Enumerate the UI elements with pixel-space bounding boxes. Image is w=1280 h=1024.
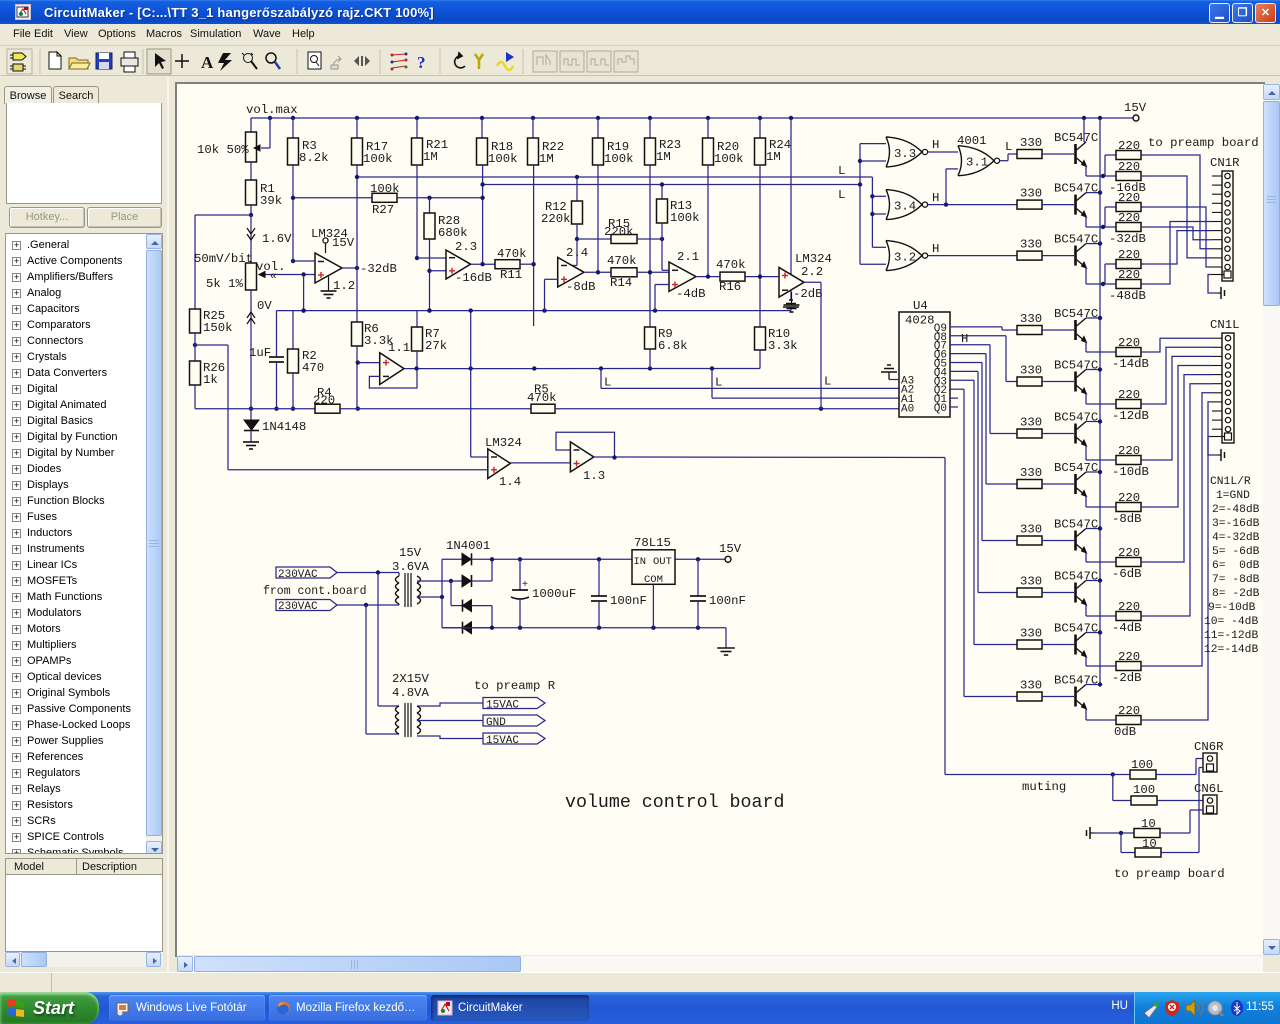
resistor 220 -16dB upper (1116, 139, 1143, 160)
gate U3.1 NOR 4001 (957, 134, 1000, 176)
wire -16dB lower to CN1R (1143, 176, 1212, 258)
resistor R4 220 (313, 386, 340, 413)
ground at A3 (881, 365, 897, 380)
resistor 220 0dB (1116, 704, 1143, 725)
wire R24 line down (759, 165, 761, 327)
terminal 15V top right (1124, 101, 1147, 121)
resistor 330 base Q5 (1017, 364, 1074, 387)
label R1 39k (260, 182, 282, 208)
wire CN1R pin12 to ground (1208, 275, 1218, 294)
transistor Q1 BC547C (1076, 142, 1087, 167)
resistor R24 (755, 118, 792, 165)
op-amp 1.1 feedback loop (369, 369, 417, 389)
wire -16dB upper to CN1R (1141, 155, 1212, 249)
transistor Q4 BC547C (1076, 318, 1087, 343)
op-amp U1.2 LM324 (311, 227, 355, 293)
wire PSU top rail (490, 557, 632, 561)
wire Q10 collector to bus (1086, 630, 1102, 634)
wire R22 line down (533, 165, 535, 326)
resistor 220 -12dB (1116, 388, 1143, 409)
label legend CN1L/R (1204, 476, 1260, 656)
wire wiper to op-amp 1.2 (268, 271, 315, 283)
resistor 330 base Q9 (1017, 575, 1074, 598)
op-amp 1.2 ground pin (321, 277, 337, 299)
status bar (0, 972, 1280, 992)
label L at A2 (604, 376, 611, 390)
label H at 3.2 (932, 242, 939, 256)
op-amp U1.4 LM324 (485, 436, 522, 489)
wire divider to 1.4 plus (228, 469, 488, 471)
transistor Q9 BC547C (1076, 581, 1087, 606)
label -4dB (1112, 621, 1142, 635)
op-amp 2.2 ground pin (784, 292, 800, 312)
resistor R3 (288, 118, 329, 165)
diode D5 1N4148 (244, 409, 259, 442)
potentiometer P2 5k vol (246, 263, 269, 290)
menu bar (0, 24, 1280, 46)
potentiometer P1 10k (246, 118, 271, 162)
wire to T2 primary bottom (366, 605, 399, 734)
transistor Q3 BC547C (1076, 244, 1087, 269)
wire 720 row to CN1L (1143, 402, 1212, 720)
wire 1.3 output to muting (594, 455, 1115, 776)
connector CN6R (1203, 753, 1217, 772)
wire R26 bottom to main bus (194, 385, 196, 409)
wire to 3.2 inputs (860, 247, 886, 264)
wire 100 upper to CN6R (1196, 759, 1203, 775)
component tree (5, 233, 163, 854)
wire Q6 emitter to 220 (1086, 446, 1116, 461)
node R25 R26 to op1.4 (193, 343, 228, 470)
ground at CN1R (1218, 287, 1225, 299)
label BC547C Q5 (1054, 359, 1098, 373)
label vol. (256, 260, 286, 274)
label 100k R27 (370, 182, 400, 217)
flag 15VAC upper (483, 698, 545, 712)
hotkey button (9, 207, 85, 228)
wire L lines to gate 3.3 inputs (858, 144, 886, 265)
wire 404 row to CN1L (1143, 347, 1212, 404)
capacitor C4 100nF (690, 559, 746, 627)
label -32dB (1109, 232, 1146, 246)
resistor R19 (593, 118, 634, 166)
wire 10 upper to CN6L (1190, 810, 1203, 833)
resistor 220 -48dB upper (1116, 248, 1143, 269)
testpoint arrow 1.6V (247, 215, 255, 263)
wire Q11 collector to bus (1086, 682, 1102, 686)
wire R13 bottom to 2.1 inverting (662, 223, 669, 270)
resistor 330 base Q1 (1017, 136, 1074, 159)
label -4dB (676, 287, 706, 301)
label BC547C Q9 (1054, 570, 1098, 584)
resistor R23 (645, 118, 682, 165)
wire R19 line down (597, 165, 599, 272)
resistor 10 upper (1094, 817, 1190, 838)
wire 3.2 output to 330 row3 (928, 255, 1018, 257)
resistor 220 -16dB lower (1116, 160, 1143, 181)
resistor 100 lower (1113, 775, 1203, 806)
wire -48dB upper to CN1R (1141, 231, 1212, 264)
transistor Q6 BC547C (1076, 422, 1087, 447)
wire Q5 collector to bus (1086, 367, 1102, 371)
connector CN1L (1212, 333, 1234, 443)
pin stub Q1 (950, 397, 958, 399)
wire Q8 to 330 row5 (950, 336, 1017, 382)
label H at 3.4 (932, 191, 939, 205)
wire R3 line to 1.2 inverting input (291, 259, 315, 263)
resistor R5 470k (527, 383, 557, 414)
resistor 100 upper (1113, 758, 1196, 779)
junction dots on 1.1 output row (414, 366, 714, 370)
label L at A1 (715, 376, 722, 390)
wire 352 row to CN1L (1143, 338, 1212, 352)
resistor R9 6.8k (645, 327, 688, 369)
label 1.6V (262, 232, 292, 246)
wire to T2 primary top (378, 573, 399, 707)
wire 3.4 output node (928, 169, 1018, 207)
resistor 220 -6dB (1116, 546, 1143, 567)
wire -32dB upper to CN1R (1141, 207, 1212, 267)
wire pair jog -48dB (1105, 264, 1116, 284)
wire 3.1 output to 330 row1 (1000, 154, 1018, 161)
IC U4 4028 (899, 299, 950, 417)
label -8dB (566, 280, 596, 294)
resistor 330 base Q3 (1017, 238, 1074, 261)
wire R18 line down (482, 165, 484, 264)
pin stub A3 (889, 379, 899, 381)
label to preamp R (474, 679, 556, 693)
resistor 330 base Q7 (1017, 466, 1074, 489)
wire -48dB lower to CN1R (1143, 222, 1212, 285)
wire R12 bottom to 2.4 inverting (558, 224, 580, 266)
label muting (1022, 780, 1066, 794)
resistor 330 base Q11 (1017, 679, 1074, 702)
wire pot2 bottom to main bus (249, 290, 253, 411)
wire 3.3 output to 3.1 (928, 151, 959, 153)
label -12dB (1112, 409, 1149, 423)
label CN1L (1210, 318, 1240, 332)
pin stub A2 (898, 387, 900, 389)
wire 666 row to CN1L (1143, 393, 1212, 666)
diode D2 1N4001 (451, 559, 492, 587)
label BC547C Q7 (1054, 461, 1098, 475)
resistor R11 470k (495, 247, 536, 282)
op-amp U1.3 (570, 442, 605, 483)
resistor R16 470k (716, 258, 779, 294)
wire COM to bottom rail (652, 584, 654, 627)
wire Q10 emitter to 220 (1086, 657, 1116, 667)
resistor R20 (703, 118, 744, 166)
wire 2.1 output (696, 274, 720, 278)
wire Q3 emitter node (1086, 268, 1116, 287)
junction dots on top bus (268, 116, 1102, 120)
wire bottom rail to ground (725, 628, 727, 648)
gate U3.4 NOR (886, 190, 928, 220)
label volume control board (565, 793, 784, 813)
testpoint arrow 0V (247, 312, 255, 324)
resistor 10 lower (1121, 833, 1199, 857)
resistor R28 (424, 198, 468, 240)
resistor 220 -4dB (1116, 600, 1143, 621)
wire Q2 to 330 row11 (950, 389, 1017, 696)
wire 2.2 output to A0 bus (804, 282, 821, 408)
wire 2.4 plus bias (545, 279, 558, 310)
wire 10 lower to CN6R (1199, 768, 1203, 853)
label to preamp board bottom (1114, 867, 1225, 881)
wire t1 collector stub (1083, 118, 1085, 142)
wire Q6 to 330 row7 (950, 354, 1017, 484)
label -10dB (1112, 465, 1149, 479)
diode D1 1N4001 (442, 553, 492, 565)
op-amp U2.3 (446, 240, 477, 279)
wire T2 sec bottom (417, 736, 483, 739)
resistor 330 base Q8 (1017, 523, 1074, 546)
pin labels Q9-Q0 (934, 323, 948, 415)
wire Q5 emitter to 220 (1086, 394, 1116, 405)
wire Q9 collector to bus (1086, 578, 1102, 582)
label 50mV/bit (194, 252, 253, 266)
transistor Q5 BC547C (1076, 370, 1087, 395)
wire 562 row to CN1L (1143, 375, 1212, 562)
ground PSU (717, 648, 735, 655)
wire T2 sec top (417, 703, 483, 706)
label 5k 1% (206, 277, 244, 291)
wire 230VAC lower to T1 (337, 603, 399, 607)
wire Q2 emitter node (1086, 217, 1116, 230)
wire R3 line down (292, 165, 294, 261)
transformer T2 (396, 703, 421, 737)
label L at 2.2 output (824, 375, 831, 389)
label 10k 50% (197, 143, 249, 157)
resistor R25 (190, 309, 233, 335)
label to preamp board top (1148, 136, 1259, 150)
gate U3.2 NOR (886, 241, 928, 271)
flag 230VAC upper (276, 567, 337, 581)
resistor 330 base Q4 (1017, 312, 1074, 335)
label BC547C Q8 (1054, 518, 1098, 532)
pin labels A3-A0 (901, 376, 915, 416)
wire -32dB lower to CN1R (1143, 227, 1212, 240)
resistor R15 220k (577, 217, 664, 244)
op-amp U2.1 (669, 250, 699, 291)
wire Q5 to 330 row8 (950, 363, 1017, 541)
resistor 220 -8dB (1116, 491, 1143, 512)
resistor 330 base Q2 (1017, 187, 1074, 210)
canvas background (177, 84, 1263, 955)
taskbar (0, 992, 1280, 1024)
wire 2.1 plus bias (655, 285, 669, 311)
wire Q2 collector to bus (1086, 190, 1102, 194)
label H at Q7 (961, 332, 968, 346)
wire pair jog -32dB (1105, 207, 1116, 227)
wire 0V to 1.4 inverting (471, 311, 488, 457)
label CN1R (1210, 156, 1240, 170)
wire Q3 to 330 row10 (950, 380, 1017, 644)
wire 507 row to CN1L (1143, 366, 1212, 508)
op-amp U2.4 (558, 246, 588, 287)
wire T2 sec mid (417, 720, 483, 722)
wire Q8 collector to bus (1086, 526, 1102, 530)
connector CN6L (1203, 795, 1217, 814)
wire to 1.1 plus (358, 362, 380, 364)
label -2dB (793, 287, 823, 301)
regulator U5 78L15 (632, 536, 675, 586)
ground at 10 resistors (1087, 827, 1095, 839)
label 0V (257, 299, 272, 313)
wire R20 line down (707, 165, 709, 277)
wire A2 line (601, 369, 899, 389)
canvas vertical scrollbar (1263, 84, 1280, 955)
wire 460 row to CN1L (1143, 356, 1212, 460)
wire Q3 collector to bus (1086, 241, 1102, 245)
label 1N4148 (262, 420, 306, 434)
transistor Q7 BC547C (1076, 472, 1087, 497)
wire 616 row to CN1L (1143, 384, 1212, 616)
resistor R26 (190, 333, 226, 387)
resistor R12 220k (541, 175, 583, 226)
label -14dB (1112, 357, 1149, 371)
wire Q8 emitter to 220 (1086, 553, 1116, 563)
wire 15V top bus (251, 117, 1133, 119)
op-amp U1.1 (380, 341, 410, 385)
wire PSU out rail (675, 557, 728, 561)
wire Q1 collector (1084, 141, 1086, 143)
transistor Q10 BC547C (1076, 633, 1087, 658)
resistor 220 -14dB (1116, 336, 1143, 357)
resistor R27 (291, 193, 485, 202)
label -16dB (455, 271, 492, 285)
pin stub Q0 (950, 406, 958, 408)
label BC547C Q3 (1054, 233, 1098, 247)
wire collector bus 15V (1099, 118, 1101, 685)
label BC547C Q6 (1054, 411, 1098, 425)
diode bridge left rail (441, 559, 443, 627)
resistor 220 -2dB (1116, 650, 1143, 671)
wire CN1L pin12 to ground (1208, 437, 1218, 456)
wire x791 to ground (790, 118, 792, 311)
ground at end of 0V rail (783, 300, 799, 307)
wire 1.4 output to 1.3 (510, 462, 570, 464)
transistor Q2 BC547C (1076, 193, 1087, 218)
label -32dB (360, 262, 397, 276)
capacitor C3 100nF (591, 559, 647, 627)
label CN6R (1194, 740, 1224, 754)
transistor Q11 BC547C (1076, 685, 1087, 710)
resistor R21 (412, 118, 449, 165)
wire line A corner to 3.4 inputs (870, 177, 886, 247)
resistor 330 base Q6 (1017, 416, 1074, 439)
transistor Q8 BC547C (1076, 529, 1087, 554)
wire T1 secondary bottom (417, 595, 444, 599)
resistor R6 3.3k (352, 322, 394, 348)
resistor R14 470k (607, 254, 669, 290)
resistor R18 (477, 118, 518, 166)
label BC547C Q11 (1054, 674, 1098, 688)
resistor R10 3.3k (755, 327, 798, 369)
label L upper (838, 164, 845, 178)
wire Q9 to 330 row4 (950, 327, 1017, 330)
wire 230VAC upper to T1 (337, 570, 399, 576)
label 0dB (1114, 725, 1136, 739)
canvas horizontal scrollbar (177, 956, 1263, 972)
left browse panel (0, 77, 169, 972)
resistor 220 -10dB (1116, 444, 1143, 465)
place button (87, 207, 162, 228)
resistor R13 100k (657, 182, 700, 225)
resistor 220 -32dB upper (1116, 191, 1143, 212)
wire main bus to 4028 A0 (555, 407, 899, 411)
resistor R2 470 (288, 311, 325, 411)
label -6dB (1112, 567, 1142, 581)
label L at 3.1 (1005, 140, 1012, 154)
wire 1.2 output (342, 266, 359, 270)
capacitor C1 1uF (249, 311, 284, 411)
label -2dB (1112, 671, 1142, 685)
wire Q9 emitter to 220 (1086, 605, 1116, 617)
label vol.max (246, 103, 298, 117)
wire PSU bottom rail (442, 626, 726, 630)
wire Q7 collector to bus (1086, 470, 1102, 474)
label L lower (838, 188, 845, 202)
label CN6L (1194, 782, 1224, 796)
wire R6 bottom node (356, 346, 360, 411)
label 2X15V 4.8VA (392, 672, 430, 700)
capacitor C2 1000uF (511, 559, 576, 627)
wire Q4 collector to bus (1086, 316, 1102, 320)
label 15V 3.6VA (392, 546, 430, 574)
wire 1.1 output row (404, 368, 760, 370)
label -8dB (1112, 512, 1142, 526)
wire main bus middle (340, 408, 531, 410)
wire R23 line down (649, 165, 651, 327)
window title bar (0, 0, 1280, 24)
junction dots on 0V bus (301, 308, 657, 312)
ground at CN1L (1218, 449, 1225, 461)
flag 15VAC lower (483, 733, 545, 747)
resistor R1 (246, 162, 257, 215)
resistor 220 -48dB lower (1116, 268, 1143, 289)
label H at 3.3 (932, 138, 939, 152)
label -48dB (1109, 289, 1146, 303)
flag 230VAC lower (276, 600, 337, 614)
wire bias x303 to 0V bus (301, 275, 305, 313)
wire R21 line to 2.3 inverting (415, 165, 446, 260)
label BC547C Q1 (1054, 131, 1098, 145)
wire Q4 emitter to 220 (1086, 342, 1116, 352)
label 1N4001 (446, 539, 490, 553)
wire R17 line down (356, 165, 358, 322)
resistor 220 -32dB lower (1116, 211, 1143, 232)
label BC547C Q4 (1054, 307, 1098, 321)
diode D4 1N4001 (442, 622, 492, 634)
wire T1 secondary top (417, 579, 453, 583)
wire A1 line (712, 369, 899, 399)
wire R28 bottom to 2.3 plus (427, 239, 446, 313)
resistor 330 base Q10 (1017, 627, 1074, 650)
flag GND (483, 715, 545, 729)
wire line L lower (480, 182, 860, 186)
label BC547C Q10 (1054, 622, 1098, 636)
label BC547C Q2 (1054, 182, 1098, 196)
resistor R17 (352, 118, 393, 166)
diode D3 1N4001 (451, 581, 492, 628)
op-amp 1.3 feedback loop (556, 432, 615, 457)
op-amp U2.2 LM324 (779, 252, 832, 297)
toolbar (0, 47, 1280, 76)
wire Q6 collector to bus (1086, 419, 1102, 423)
ground below 1N4148 (243, 442, 259, 449)
wire 2.4 output (584, 270, 611, 274)
